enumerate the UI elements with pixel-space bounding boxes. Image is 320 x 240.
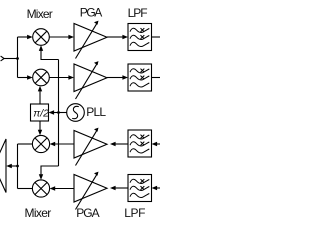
phase shifter pi/2 box [31, 104, 49, 121]
oscillator PLL [67, 104, 85, 122]
wire LO vertical trunk [58, 60, 60, 167]
svg-text:Mixer: Mixer [27, 7, 53, 21]
wire splitter vertical [17, 37, 19, 78]
wire mixer M2 to PGA A2 [49, 75, 74, 79]
wire PGA A1 to LPF F1 [107, 35, 128, 39]
wire right edge to LPF F4 [152, 186, 161, 190]
svg-text:LPF: LPF [128, 6, 148, 20]
label PLL [86, 105, 106, 119]
wire LO top jog to mixer M1 [39, 45, 59, 59]
wire combiner to output amp [6, 164, 17, 168]
gain arrow of A4 [76, 172, 99, 210]
wire input to splitter [4, 58, 17, 60]
label Mixer (bottom) [25, 206, 52, 220]
wire LPF F4 to PGA A4 [110, 186, 128, 190]
wire PGA A2 to LPF F2 [107, 75, 128, 79]
gain arrow of A1 [76, 21, 99, 59]
gain arrow of A2 [76, 61, 99, 99]
node combiner junction [16, 165, 19, 168]
wire splitter to mixer M1 [18, 35, 33, 39]
label Mixer (top) [27, 7, 53, 21]
svg-text:LPF: LPF [124, 206, 145, 220]
svg-text:PGA: PGA [76, 206, 99, 220]
svg-text:π/2: π/2 [33, 107, 49, 119]
svg-text:Mixer: Mixer [25, 206, 52, 220]
mixer M4 [32, 180, 49, 197]
amplifier PGA A1 [74, 24, 107, 52]
label pi/2 [33, 107, 49, 119]
label LPF (top) [128, 6, 148, 20]
wire splitter to mixer M2 [18, 75, 33, 79]
wire PGA A3 to mixer M3 [50, 142, 74, 146]
wire right edge to LPF F3 [152, 142, 161, 146]
input port chevron [1, 56, 5, 61]
wire LO bottom jog to mixer M4 [39, 166, 59, 180]
wire pi/2 to mixer M3 [38, 121, 42, 135]
svg-text:PGA: PGA [80, 6, 103, 20]
gain arrow of A3 [76, 128, 99, 166]
wire PLL to pi/2 [49, 110, 67, 114]
amplifier output PA [0, 139, 6, 193]
label PGA (bottom) [76, 206, 99, 220]
wire LPF F1 to right edge [152, 36, 161, 38]
wire mixer M1 to PGA A1 [49, 35, 74, 39]
wire PGA A4 to mixer M4 [50, 186, 74, 190]
filter LPF F4 [128, 175, 152, 202]
label PGA (top) [80, 6, 103, 20]
mixer M1 [33, 29, 50, 46]
amplifier PGA A4 [74, 175, 107, 203]
amplifier PGA A3 [74, 131, 107, 159]
mixer M2 [33, 69, 50, 86]
wire LPF F3 to PGA A3 [110, 142, 128, 146]
node LO junction [57, 111, 60, 114]
filter LPF F3 [128, 130, 152, 157]
node input splitter junction [16, 57, 19, 60]
wire mixer M3 to combiner [18, 143, 33, 145]
wire pi/2 to mixer M2 [38, 86, 42, 104]
wire LPF F2 to right edge [152, 77, 161, 79]
label LPF (bottom) [124, 206, 145, 220]
filter LPF F1 [128, 24, 152, 51]
filter LPF F2 [128, 64, 152, 91]
mixer M3 [32, 135, 49, 152]
wire combiner vertical [17, 144, 19, 189]
svg-text:PLL: PLL [86, 105, 106, 119]
amplifier PGA A2 [74, 64, 107, 92]
wire mixer M4 to combiner [18, 188, 33, 190]
